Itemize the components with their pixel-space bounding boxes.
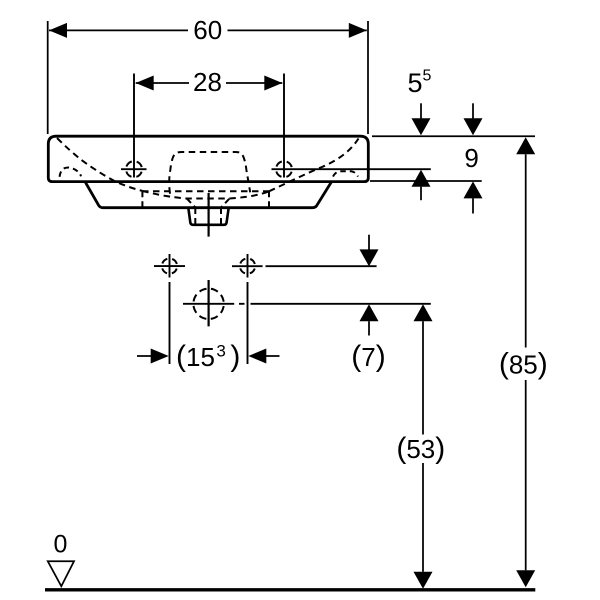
dimension (15 3) left arrow bbox=[151, 349, 169, 364]
svg-text:(7): (7) bbox=[351, 340, 385, 373]
bowl bottom left side bbox=[141, 191, 143, 207]
svg-text:9: 9 bbox=[464, 143, 478, 173]
mounting hole left circle bbox=[162, 259, 177, 274]
bowl bottom right side bbox=[268, 191, 270, 207]
mounting hole right circle bbox=[240, 259, 255, 274]
rim top extension line for 5.5 / 9 / (85) bbox=[372, 135, 535, 137]
mounting hole right vertical axis / extension line bbox=[247, 254, 249, 364]
dimension 28 arrow right bbox=[264, 76, 282, 91]
dimension (15 3) right arrow stem bbox=[265, 355, 279, 357]
dimension 28 line bbox=[136, 82, 283, 84]
mounting hole right crosshair horizontal extending as (7) reference line bbox=[232, 265, 377, 267]
dimension 28 extension line right / tap axis bbox=[283, 74, 285, 178]
dimension 28 extension line left / tap axis bbox=[133, 74, 135, 178]
bowl bottom upper edge bbox=[142, 190, 269, 192]
tap hole left crosshair horizontal bbox=[121, 168, 147, 170]
dimension 28 arrow left bbox=[136, 76, 154, 91]
dimension 60 arrow right bbox=[349, 23, 367, 38]
floor line bbox=[45, 588, 535, 591]
svg-text:(53): (53) bbox=[396, 432, 445, 465]
drain pipe hidden right bbox=[220, 209, 222, 225]
dimension 9 upper arrow bbox=[464, 118, 483, 135]
bowl bottom lower edge bbox=[142, 191, 269, 199]
dimension 60 arrow left bbox=[49, 23, 67, 38]
dimension 60 line bbox=[49, 29, 367, 31]
left overflow arch bbox=[60, 167, 82, 176]
mounting hole left crosshair horizontal bbox=[154, 265, 185, 267]
dimension 60 extension line right bbox=[367, 21, 369, 134]
dimension (7) upper arrow stem bbox=[368, 235, 370, 250]
dimension (85) lower arrow bbox=[516, 570, 535, 587]
dimension 5.5 lower arrow stem bbox=[420, 187, 422, 201]
drain pipe hidden left bbox=[194, 209, 196, 225]
tap hole right crosshair horizontal extending as 5.5 reference line bbox=[272, 168, 431, 170]
mounting hole left vertical axis / extension line bbox=[169, 254, 171, 364]
dimension (85) line lower segment bbox=[525, 380, 527, 570]
dimension 9 lower arrow stem bbox=[472, 198, 474, 213]
svg-text:(85): (85) bbox=[499, 347, 548, 380]
tap hole right circle bbox=[276, 161, 292, 177]
svg-text:60: 60 bbox=[193, 15, 222, 45]
dimension (53) lower arrow bbox=[414, 572, 433, 589]
dimension 9 lower arrow bbox=[464, 181, 483, 198]
datum zero triangle bbox=[48, 561, 74, 586]
drain funnel right bbox=[221, 199, 229, 208]
washbasin rim outline bbox=[48, 136, 368, 181]
dimension 9 upper arrow stem bbox=[472, 103, 474, 119]
dimension (7) upper arrow bbox=[360, 249, 379, 266]
overflow recess hidden trapezoid bbox=[169, 152, 250, 194]
bowl hidden outline right curve bbox=[269, 139, 359, 192]
dimension (53) upper arrow bbox=[414, 304, 433, 321]
dimension (85) upper arrow bbox=[516, 137, 535, 154]
svg-text:(153): (153) bbox=[176, 340, 240, 373]
drain center axis line bbox=[208, 193, 210, 326]
drain funnel left bbox=[187, 199, 196, 208]
dimension 5.5 lower arrow bbox=[412, 170, 431, 187]
dimension (7) lower arrow bbox=[360, 304, 379, 321]
svg-text:0: 0 bbox=[54, 531, 68, 559]
dimension 5.5 upper arrow stem bbox=[420, 103, 422, 119]
bowl hidden outline left curve bbox=[57, 138, 142, 191]
siphon drain hole circle bbox=[193, 289, 223, 319]
dimension (53) line lower segment bbox=[422, 463, 424, 572]
rim bottom extension line for 9 bbox=[370, 180, 482, 182]
dimension 60 extension line left bbox=[47, 21, 49, 134]
dimension (53) line upper segment bbox=[422, 321, 424, 434]
dimension 5.5 upper arrow bbox=[412, 118, 431, 135]
svg-text:28: 28 bbox=[193, 67, 222, 97]
dimension (85) line upper segment bbox=[525, 154, 527, 347]
drain outlet box bbox=[188, 208, 228, 225]
dimension (15 3) right arrow bbox=[248, 349, 266, 364]
siphon drain crosshair horizontal extending as (53) reference line bbox=[183, 303, 431, 305]
right overflow arch bbox=[333, 171, 358, 176]
tap hole left circle bbox=[126, 161, 142, 177]
dimension (7) lower arrow stem bbox=[368, 321, 370, 335]
dimension (15 3) left arrow stem bbox=[137, 355, 152, 357]
washbasin lower body bbox=[85, 182, 332, 208]
